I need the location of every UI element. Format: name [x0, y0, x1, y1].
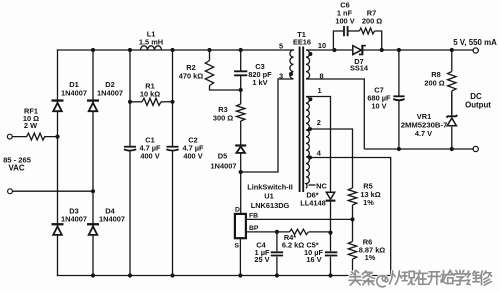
svg-text:1.5 mH: 1.5 mH [139, 37, 163, 46]
svg-text:2 W: 2 W [24, 121, 37, 130]
watermark toutiao 头条@从现在开始学维修 [349, 271, 492, 287]
wire FB [246, 218, 353, 220]
NC stub [309, 184, 316, 186]
capacitor C6 plates [344, 26, 348, 36]
diode D5 [236, 147, 245, 153]
svg-text:4: 4 [317, 148, 322, 157]
svg-text:10: 10 [318, 41, 326, 50]
svg-text:400 V: 400 V [140, 152, 159, 161]
wire D1/D3 column [57, 50, 59, 276]
svg-text:1N4007: 1N4007 [61, 215, 87, 224]
node R6 bottom rail [350, 273, 354, 277]
input terminal L [7, 134, 12, 139]
wire C1 column [129, 50, 131, 276]
diode D1 [53, 103, 62, 111]
svg-text:D5: D5 [218, 152, 227, 161]
svg-text:1N4007: 1N4007 [61, 89, 87, 98]
wire +5V rail [399, 49, 473, 51]
output terminal + [473, 48, 478, 53]
U1 LinkSwitch-II box [235, 214, 246, 238]
svg-text:Output: Output [465, 100, 491, 109]
transformer T1 core [300, 47, 304, 193]
node R1 left [128, 100, 132, 104]
svg-text:D: D [235, 206, 240, 213]
node R2 top rail [207, 48, 211, 52]
diode D4 [89, 227, 98, 235]
svg-text:200 Ω: 200 Ω [362, 17, 382, 26]
secondary phase dot [308, 52, 312, 56]
svg-text:1%: 1% [363, 198, 374, 207]
transformer bias winding [306, 97, 309, 189]
svg-text:1%: 1% [365, 253, 376, 262]
wire top rail primary [58, 49, 294, 51]
wire output return [364, 148, 473, 150]
resistor R5 [348, 188, 356, 219]
label 85-265 VAC [3, 155, 32, 172]
svg-text:400 V: 400 V [183, 152, 202, 161]
svg-text:EE16: EE16 [293, 38, 311, 47]
capacitor C4 [276, 232, 278, 276]
svg-text:U1: U1 [264, 192, 273, 201]
svg-text:5: 5 [279, 42, 283, 51]
svg-text:8: 8 [319, 72, 323, 81]
node FB / R5 / R6 [350, 217, 354, 221]
node input N / bridge [91, 189, 95, 193]
resistor R4 [246, 229, 331, 234]
wire pin4 [309, 158, 390, 276]
node C3 top rail [239, 48, 243, 52]
node D4 bottom rail [91, 273, 95, 277]
inductor L1 [141, 46, 162, 50]
svg-text:LinkSwitch-II: LinkSwitch-II [247, 183, 293, 192]
resistor RF1 [27, 133, 45, 140]
svg-text:1N4007: 1N4007 [211, 162, 237, 171]
svg-text:300 Ω: 300 Ω [213, 114, 233, 123]
svg-text:BP: BP [249, 225, 259, 232]
resistor R6 [348, 219, 356, 275]
svg-text:4.7 V: 4.7 V [415, 129, 432, 138]
svg-text:LNK613DG: LNK613DG [251, 201, 290, 210]
capacitor C7 [398, 50, 400, 149]
resistor R3 [237, 90, 245, 146]
node pin10 / C6 junction [332, 48, 336, 52]
node R7 / rail junction [380, 48, 384, 52]
node C7 top [397, 48, 401, 52]
svg-text:1N4007: 1N4007 [97, 89, 123, 98]
resistor R8 [448, 50, 456, 114]
svg-text:FB: FB [249, 213, 258, 220]
snubber C6 R7 [333, 28, 381, 50]
diode D6 [326, 192, 334, 199]
wire bottom rail [58, 275, 391, 277]
node drain / D5 / pin3 [239, 170, 243, 174]
svg-text:LL4148: LL4148 [300, 198, 325, 207]
svg-text:VR1: VR1 [417, 112, 431, 121]
svg-text:10 kΩ: 10 kΩ [140, 90, 160, 99]
wire C2 column [172, 50, 174, 276]
capacitor C3 [234, 50, 247, 90]
wire source [239, 238, 241, 275]
svg-text:10 V: 10 V [371, 102, 386, 111]
wire pin3 [241, 79, 294, 172]
svg-text:VAC: VAC [8, 163, 24, 172]
node source bottom rail [238, 273, 242, 277]
capacitor C2 [166, 147, 178, 151]
node C1 bottom rail [128, 273, 132, 277]
node C2 top rail [170, 48, 174, 52]
node R4 / D6 / C5 bias [328, 231, 332, 235]
capacitor C5 [330, 233, 332, 276]
capacitor C1 [124, 147, 136, 151]
svg-text:100 V: 100 V [335, 17, 354, 26]
node R2 / C3 / R3 clamp [239, 88, 243, 92]
input terminal N [8, 189, 13, 194]
diode D2 [89, 103, 98, 111]
svg-text:3: 3 [279, 72, 283, 81]
wire input line N [13, 190, 94, 192]
node R1 right [170, 100, 174, 104]
wire input line L [12, 136, 57, 138]
zener VR1 [447, 118, 456, 126]
diode D7 schottky [334, 49, 399, 51]
node RF1 / bridge [55, 135, 59, 139]
node C2 bottom rail [170, 273, 174, 277]
svg-text:470 kΩ: 470 kΩ [179, 72, 203, 81]
transformer secondary winding [306, 50, 364, 149]
output terminal - [473, 146, 478, 151]
svg-text:25 V: 25 V [254, 255, 269, 264]
svg-text:SS14: SS14 [350, 64, 369, 73]
node BP / C4 / R4 [275, 230, 279, 234]
node VR1 bottom / return [450, 147, 454, 151]
wire D2/D4 column [92, 50, 94, 276]
svg-text:2: 2 [317, 118, 321, 127]
svg-text:6.2 kΩ: 6.2 kΩ [282, 241, 304, 250]
svg-text:1 kV: 1 kV [252, 78, 267, 87]
wire pin2 [309, 129, 352, 188]
resistor R1 [130, 98, 173, 105]
transformer primary winding [290, 50, 294, 79]
svg-text:16 V: 16 V [306, 255, 321, 264]
node C1 top rail [128, 48, 132, 52]
svg-text:S: S [235, 242, 240, 249]
resistor R2 [205, 50, 240, 90]
node C5 bottom rail [328, 273, 332, 277]
svg-text:5 V, 550 mA: 5 V, 550 mA [453, 38, 497, 47]
svg-text:NC: NC [316, 181, 327, 190]
node C4 bottom rail [275, 273, 279, 277]
node D2 top rail [91, 48, 95, 52]
svg-text:1N4007: 1N4007 [99, 215, 125, 224]
node C7 bottom / return [397, 147, 401, 151]
svg-text:1: 1 [317, 86, 321, 95]
wire pin1 [306, 97, 331, 193]
diode D3 [53, 227, 62, 235]
svg-text:200 Ω: 200 Ω [424, 79, 444, 88]
primary phase dot [289, 72, 293, 76]
node R8 top [450, 48, 454, 52]
